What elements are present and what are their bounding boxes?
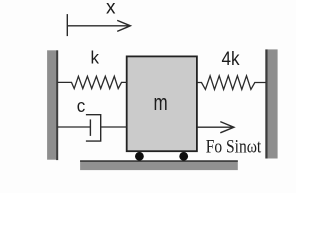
- damper rod (wall side): [58, 126, 91, 128]
- svg-text:x: x: [106, 0, 116, 19]
- spring 4k: [197, 76, 266, 90]
- svg-text:m: m: [154, 91, 168, 116]
- svg-text:Fo Sinωt: Fo Sinωt: [206, 135, 262, 157]
- displacement axis tick: [66, 14, 68, 36]
- svg-text:k: k: [91, 47, 100, 67]
- force arrow: [197, 122, 234, 133]
- spring k: [58, 76, 128, 88]
- damper piston: [89, 119, 91, 135]
- svg-text:4k: 4k: [221, 47, 240, 69]
- damper rod (mass side): [101, 126, 127, 128]
- mass m block: [127, 56, 197, 151]
- roller left: [135, 152, 144, 161]
- right wall: [268, 49, 278, 158]
- svg-text:c: c: [77, 96, 86, 117]
- left wall edge: [56, 50, 58, 160]
- damper cylinder: [86, 115, 101, 141]
- roller right: [179, 152, 188, 161]
- floor top edge: [80, 160, 238, 162]
- left wall: [47, 50, 56, 159]
- right wall edge: [265, 49, 267, 158]
- displacement arrow x: [67, 20, 130, 31]
- floor: [80, 160, 238, 170]
